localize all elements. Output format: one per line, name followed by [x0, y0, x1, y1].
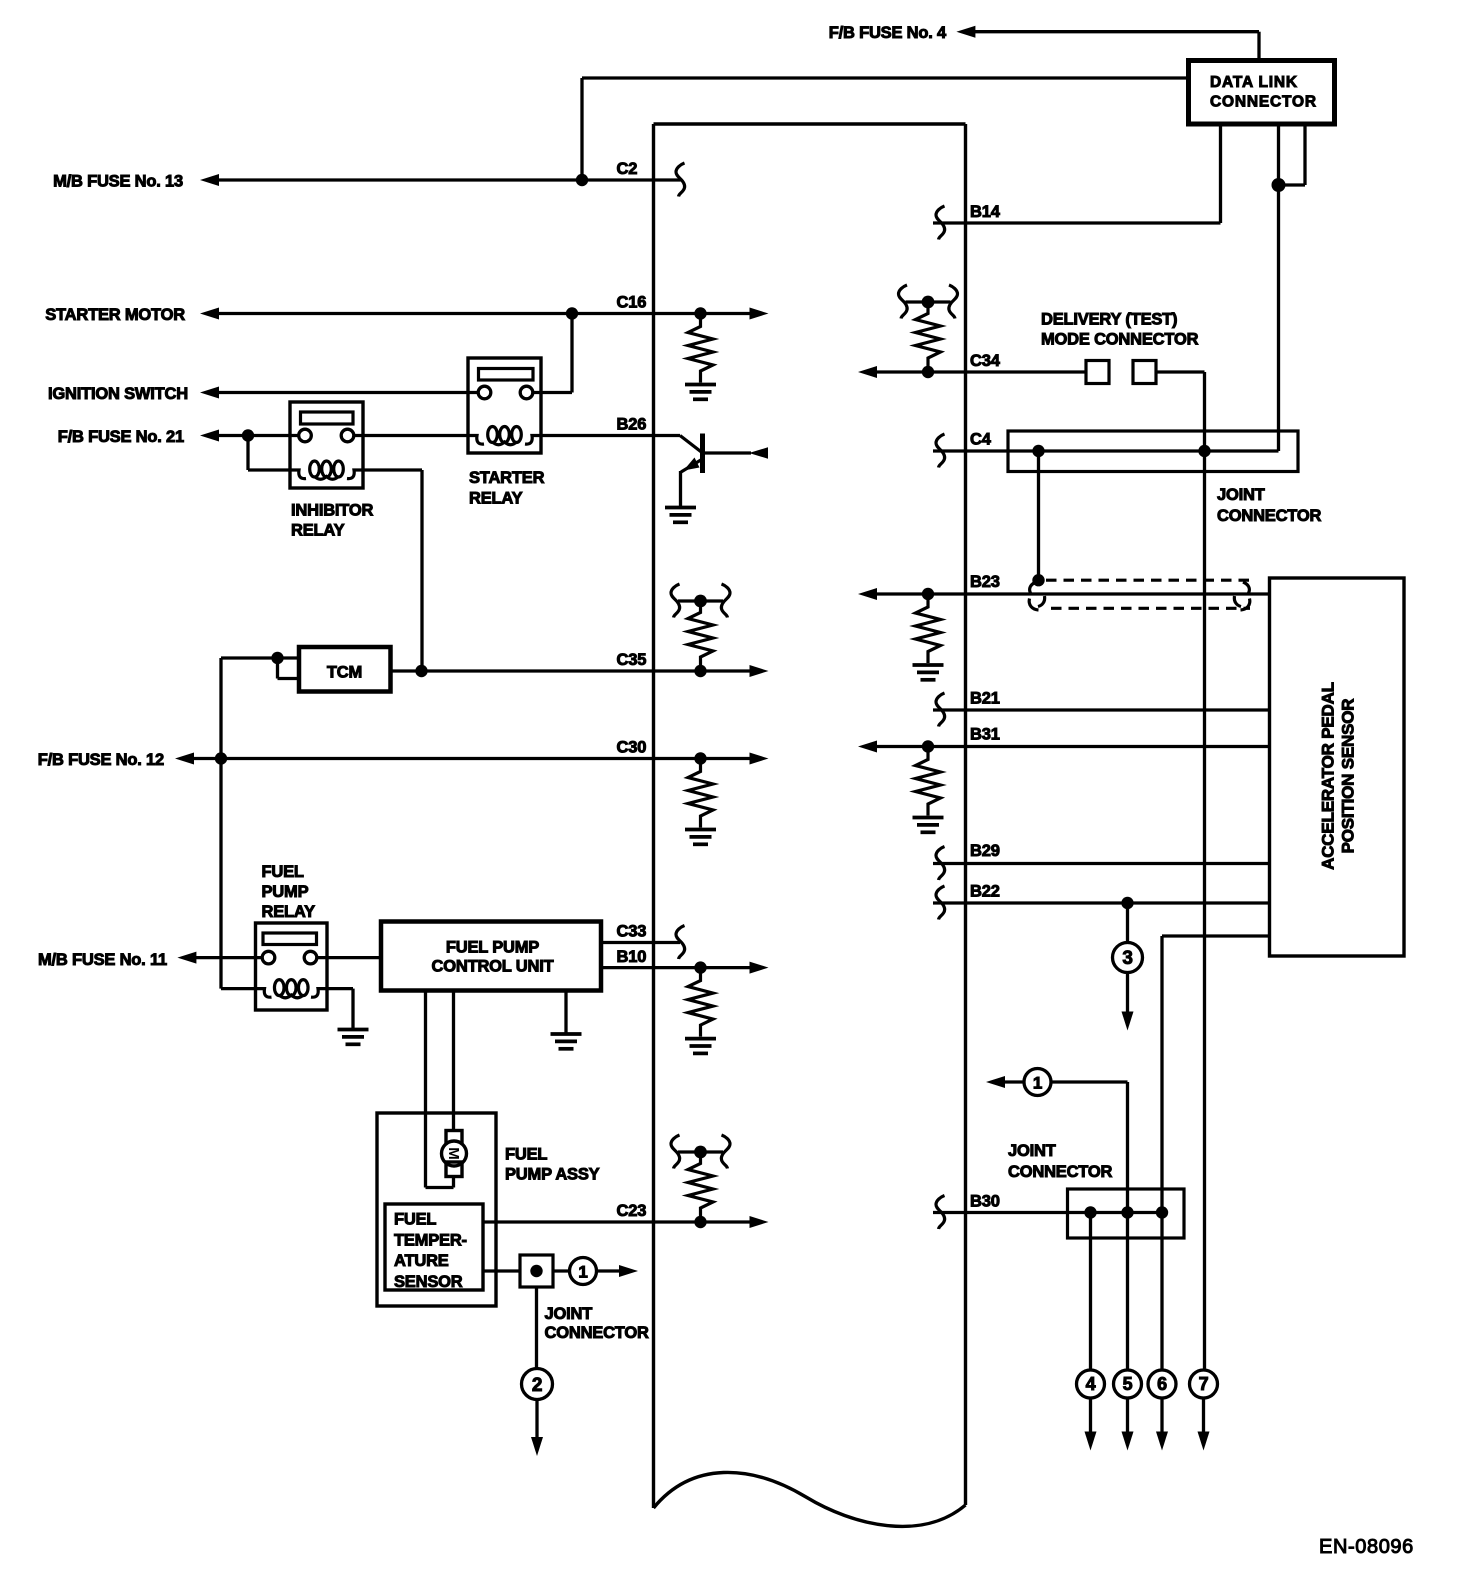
svg-text:CONNECTOR: CONNECTOR — [545, 1324, 650, 1342]
svg-text:CONNECTOR: CONNECTOR — [1217, 507, 1322, 525]
svg-text:B31: B31 — [970, 726, 1000, 744]
svg-text:SENSOR: SENSOR — [394, 1273, 463, 1291]
svg-text:FUEL: FUEL — [262, 863, 304, 881]
svg-text:B10: B10 — [617, 948, 647, 966]
svg-text:C23: C23 — [617, 1202, 647, 1220]
svg-text:RELAY: RELAY — [469, 490, 523, 508]
svg-text:INHIBITOR: INHIBITOR — [291, 502, 374, 520]
svg-text:MODE CONNECTOR: MODE CONNECTOR — [1041, 331, 1199, 349]
svg-text:C33: C33 — [617, 922, 647, 940]
svg-text:5: 5 — [1123, 1374, 1133, 1394]
svg-text:B23: B23 — [970, 573, 1000, 591]
svg-text:B29: B29 — [970, 842, 1000, 860]
svg-text:STARTER: STARTER — [469, 469, 545, 487]
svg-text:C30: C30 — [617, 739, 647, 757]
svg-text:M/B FUSE No. 13: M/B FUSE No. 13 — [53, 173, 183, 191]
svg-text:4: 4 — [1086, 1374, 1096, 1394]
svg-text:ATURE: ATURE — [394, 1252, 449, 1270]
svg-text:IGNITION SWITCH: IGNITION SWITCH — [48, 385, 188, 403]
svg-text:TCM: TCM — [327, 664, 362, 682]
svg-text:7: 7 — [1199, 1374, 1209, 1394]
svg-text:B30: B30 — [970, 1193, 1000, 1211]
svg-text:JOINT: JOINT — [1217, 486, 1265, 504]
svg-text:CONNECTOR: CONNECTOR — [1210, 94, 1317, 111]
svg-text:ACCELERATOR PEDAL: ACCELERATOR PEDAL — [1319, 682, 1338, 870]
svg-text:F/B FUSE No. 4: F/B FUSE No. 4 — [829, 24, 947, 42]
svg-text:2: 2 — [532, 1375, 542, 1396]
svg-text:M: M — [445, 1147, 462, 1160]
svg-text:RELAY: RELAY — [262, 903, 316, 921]
svg-text:PUMP ASSY: PUMP ASSY — [505, 1166, 600, 1184]
svg-text:JOINT: JOINT — [545, 1305, 593, 1323]
svg-text:C4: C4 — [970, 431, 992, 449]
svg-text:POSITION SENSOR: POSITION SENSOR — [1339, 699, 1358, 854]
svg-text:B21: B21 — [970, 690, 1000, 708]
svg-text:JOINT: JOINT — [1008, 1142, 1056, 1160]
svg-text:B14: B14 — [970, 203, 1001, 221]
svg-text:C2: C2 — [617, 160, 638, 178]
svg-text:M/B FUSE No. 11: M/B FUSE No. 11 — [38, 951, 167, 969]
svg-text:DELIVERY (TEST): DELIVERY (TEST) — [1041, 311, 1177, 329]
svg-text:FUEL: FUEL — [505, 1146, 547, 1164]
svg-text:F/B FUSE No. 21: F/B FUSE No. 21 — [58, 428, 184, 446]
svg-text:DATA LINK: DATA LINK — [1210, 74, 1298, 91]
svg-text:CONTROL UNIT: CONTROL UNIT — [432, 958, 554, 976]
svg-text:B26: B26 — [617, 416, 647, 434]
svg-text:1: 1 — [578, 1263, 587, 1282]
svg-text:RELAY: RELAY — [291, 522, 345, 540]
svg-text:C34: C34 — [970, 352, 1001, 370]
svg-text:FUEL PUMP: FUEL PUMP — [446, 938, 539, 956]
svg-text:1: 1 — [1033, 1074, 1042, 1093]
svg-text:STARTER MOTOR: STARTER MOTOR — [45, 306, 185, 324]
svg-text:FUEL: FUEL — [394, 1211, 436, 1229]
svg-text:PUMP: PUMP — [262, 883, 309, 901]
svg-text:F/B FUSE No. 12: F/B FUSE No. 12 — [38, 751, 164, 769]
svg-text:6: 6 — [1157, 1374, 1167, 1394]
svg-text:C35: C35 — [617, 651, 647, 669]
svg-text:3: 3 — [1122, 948, 1132, 969]
svg-text:EN-08096: EN-08096 — [1319, 1536, 1414, 1558]
svg-text:B22: B22 — [970, 883, 1000, 901]
svg-text:TEMPER-: TEMPER- — [394, 1232, 467, 1250]
svg-text:CONNECTOR: CONNECTOR — [1008, 1163, 1113, 1181]
svg-text:C16: C16 — [617, 294, 647, 312]
